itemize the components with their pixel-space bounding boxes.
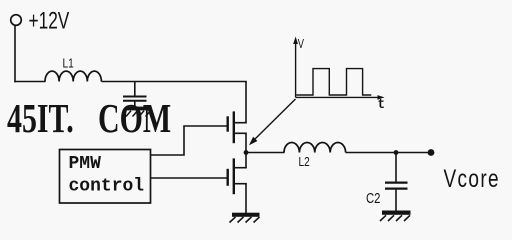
waveform graph t axis bbox=[296, 95, 385, 100]
svg-text:V: V bbox=[298, 38, 305, 52]
node output junction bbox=[394, 150, 399, 155]
wire L1 to top-right corner bbox=[101, 81, 246, 83]
capacitor C1 bbox=[123, 82, 147, 107]
waveform graph V axis bbox=[293, 37, 298, 98]
svg-text:C2: C2 bbox=[366, 190, 380, 207]
label Vcore bbox=[444, 164, 500, 192]
svg-text:PMW: PMW bbox=[69, 154, 102, 174]
terminal Vcore output bbox=[428, 149, 435, 156]
label V (axis) bbox=[298, 38, 305, 52]
transistor Q2 (lower MOSFET) bbox=[228, 158, 247, 194]
wire Q1 source to Q2 drain bbox=[245, 133, 247, 167]
wire from +12V terminal down bbox=[14, 26, 16, 83]
svg-text:control: control bbox=[69, 177, 145, 197]
label t (axis) bbox=[378, 96, 386, 112]
svg-text:COM: COM bbox=[98, 95, 171, 141]
PMW control box U1 bbox=[60, 150, 151, 204]
wire PMW box to Q2 gate bbox=[151, 177, 227, 179]
label L2 bbox=[299, 155, 310, 169]
label C2 bbox=[366, 190, 380, 207]
inductor L1 bbox=[45, 71, 101, 81]
transistor Q1 (upper MOSFET) bbox=[228, 111, 247, 143]
watermark 45IT.COM bbox=[7, 95, 171, 141]
inductor L2 bbox=[284, 143, 346, 153]
waveform square pulse trace bbox=[296, 69, 371, 95]
wire PMW box to Q1 gate bbox=[151, 126, 227, 155]
svg-text:t: t bbox=[378, 96, 386, 112]
svg-text:Vcore: Vcore bbox=[444, 164, 500, 192]
ground for Q2 bbox=[230, 213, 260, 223]
wire to L1 bbox=[14, 81, 45, 83]
svg-text:45IT.: 45IT. bbox=[7, 95, 74, 141]
svg-text:+12V: +12V bbox=[29, 8, 70, 34]
svg-text:L1: L1 bbox=[63, 56, 74, 70]
wire L2 to output terminal bbox=[346, 152, 430, 154]
terminal +12V input bbox=[11, 15, 22, 26]
ground for C2 bbox=[380, 211, 411, 222]
label L1 bbox=[63, 56, 74, 70]
svg-text:L2: L2 bbox=[299, 155, 310, 169]
ground for C1 bbox=[126, 107, 151, 117]
node switch-node junction bbox=[244, 150, 249, 155]
wire Q2 source to ground bbox=[245, 184, 247, 213]
wire node to L2 bbox=[246, 152, 285, 154]
label +12V bbox=[29, 8, 70, 34]
capacitor C2 bbox=[385, 153, 408, 211]
arrow pointer from waveform to switch node bbox=[249, 99, 296, 145]
wire down to Q1 drain bbox=[245, 82, 247, 123]
